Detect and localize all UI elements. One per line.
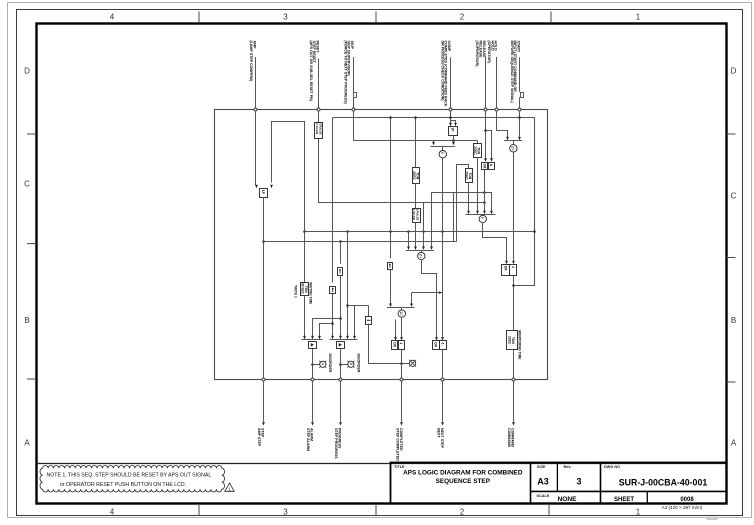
wire G4 output to P3 bbox=[422, 260, 437, 338]
svg-text:SHEET: SHEET bbox=[614, 497, 634, 503]
svg-text:SEQUENCE STEP: SEQUENCE STEP bbox=[436, 478, 491, 485]
svg-text:(SUPERVISOR): (SUPERVISOR) bbox=[475, 41, 479, 68]
svg-text:NOTE 1. THIS SEQ. STEP SHOULD: NOTE 1. THIS SEQ. STEP SHOULD BE RESET B… bbox=[47, 472, 212, 478]
svg-text:DISORDER: DISORDER bbox=[328, 354, 332, 373]
lamp X buzzer bbox=[409, 360, 416, 367]
svg-text:2SEC: 2SEC bbox=[508, 336, 512, 345]
svg-text:3: 3 bbox=[283, 13, 288, 22]
output STEP PROGRESS bbox=[339, 378, 342, 381]
wire P4 output bbox=[513, 276, 515, 330]
output COMMAND bbox=[512, 378, 515, 381]
block 1PULSE 1SCAN B1 bbox=[315, 123, 323, 139]
and box S2 bbox=[330, 339, 358, 341]
svg-text:(FORCE TO NEXT STEP PROGRESS): (FORCE TO NEXT STEP PROGRESS) bbox=[343, 41, 347, 105]
svg-text:2: 2 bbox=[460, 507, 465, 516]
svg-text:≧1: ≧1 bbox=[511, 146, 515, 151]
svg-text:NONE: NONE bbox=[558, 496, 578, 503]
svg-text:B: B bbox=[24, 316, 29, 325]
svg-text:3: 3 bbox=[576, 477, 581, 487]
wire H5 to H6 link bbox=[408, 231, 410, 242]
wire S1 link1 bbox=[313, 319, 341, 337]
svg-text:2: 2 bbox=[399, 343, 403, 345]
svg-text:A3 (420 × 297 m/m): A3 (420 × 297 m/m) bbox=[662, 505, 703, 510]
svg-text:1 SCAN: 1 SCAN bbox=[315, 123, 319, 134]
wire S2 fourth input via E3 branch bbox=[348, 305, 369, 307]
timer T4 WAITING TIME bbox=[304, 231, 306, 282]
timer T5 MONITORING TIME bbox=[507, 331, 518, 350]
svg-text:D: D bbox=[731, 67, 737, 76]
title block frame bbox=[391, 463, 727, 504]
wire T4 output bbox=[304, 296, 306, 337]
svg-text:or OPERATOR RESET PUSH BUTTON: or OPERATOR RESET PUSH BUTTON ON THE LCD… bbox=[60, 482, 186, 488]
wire P2 left input stub bbox=[395, 320, 397, 338]
svg-text:1: 1 bbox=[636, 507, 641, 516]
svg-text:1P: 1P bbox=[261, 190, 265, 195]
svg-text:AMP STEP: AMP STEP bbox=[257, 428, 261, 447]
svg-text:Rev.: Rev. bbox=[564, 465, 572, 469]
svg-text:2: 2 bbox=[460, 13, 465, 22]
wire P2 output to STEP COMPLETED bbox=[401, 350, 403, 380]
wire E3 output to buzzer line bbox=[369, 324, 410, 364]
lamp A disorder bbox=[319, 361, 326, 368]
wire H4 from 1pulse block bbox=[319, 139, 485, 203]
svg-text:STEP ALARM: STEP ALARM bbox=[306, 428, 310, 451]
svg-text:SUR-J-00CBA-40-001: SUR-J-00CBA-40-001 bbox=[619, 478, 708, 488]
svg-text:A3: A3 bbox=[537, 477, 549, 487]
svg-text:DISORDER: DISORDER bbox=[357, 354, 361, 373]
bottom strip divider bbox=[37, 463, 727, 465]
svg-text:2SEC: 2SEC bbox=[412, 171, 416, 180]
svg-text:C: C bbox=[731, 192, 737, 201]
wire S1 output to ALARM STEP bbox=[312, 349, 314, 380]
edge box E4 column bbox=[390, 118, 392, 259]
wire S2 third input bbox=[347, 231, 349, 336]
or gate G5 bbox=[387, 307, 415, 309]
wire G5 output bbox=[401, 317, 403, 337]
svg-text:0008: 0008 bbox=[680, 497, 694, 503]
wire G2 output bbox=[513, 152, 515, 260]
svg-text:WAITING TIME: WAITING TIME bbox=[309, 282, 313, 304]
svg-text:NEXT: NEXT bbox=[437, 428, 441, 438]
svg-text:2SEC: 2SEC bbox=[473, 146, 477, 155]
svg-text:≧1: ≧1 bbox=[400, 311, 404, 316]
wire H3 corner to G4 bbox=[431, 192, 433, 242]
svg-text:1: 1 bbox=[636, 13, 641, 22]
svg-text:(LAMP STEP CONFIRM): (LAMP STEP CONFIRM) bbox=[249, 41, 253, 82]
svg-text:C: C bbox=[24, 180, 30, 189]
svg-text:COMMAND: COMMAND bbox=[507, 428, 511, 448]
svg-text:SCALE: SCALE bbox=[537, 494, 550, 498]
wire PC output bbox=[453, 135, 455, 142]
timer T2 TON 2SEC bbox=[457, 165, 469, 242]
and gate G3 bbox=[466, 214, 496, 216]
wire H3 to H6 link bbox=[453, 192, 455, 242]
output NEXT STEP bbox=[441, 378, 444, 381]
wire H3 drop to G3 bbox=[491, 192, 493, 211]
or pair P3 bbox=[433, 341, 440, 350]
svg-text:≧1: ≧1 bbox=[419, 254, 423, 259]
sequence step outer box bbox=[215, 110, 548, 380]
wire skip feed HA bbox=[353, 140, 477, 142]
svg-text:OR: OR bbox=[503, 266, 507, 271]
svg-text:3: 3 bbox=[283, 507, 288, 516]
svg-text:APS LOGIC DIAGRAM FOR COMBINED: APS LOGIC DIAGRAM FOR COMBINED bbox=[403, 470, 523, 477]
wire bus H6 bbox=[263, 241, 456, 243]
output AMP STEP bbox=[262, 378, 265, 381]
or gate G2 bbox=[504, 140, 522, 142]
output STEP COMPLETED bbox=[400, 378, 403, 381]
inner feedback loop wire bbox=[333, 118, 535, 286]
and gate G1 bbox=[431, 146, 456, 148]
edge box E2 column bbox=[332, 118, 334, 283]
svg-text:1P: 1P bbox=[451, 127, 455, 132]
wire P3 output to NEXT STEP bbox=[442, 350, 444, 380]
wire T1 output bbox=[477, 158, 479, 211]
or pair P2 bbox=[392, 341, 398, 350]
svg-text:D: D bbox=[24, 67, 30, 76]
wire G1 output bbox=[442, 158, 444, 337]
svg-text:1 SCAN: 1 SCAN bbox=[412, 209, 416, 220]
svg-text:DWG NO: DWG NO bbox=[604, 465, 620, 469]
wire bus H5 bbox=[305, 231, 535, 233]
svg-text:OR: OR bbox=[482, 164, 486, 169]
pulse box PA bbox=[260, 189, 268, 198]
svg-text:MONITORING TIME: MONITORING TIME bbox=[518, 330, 522, 359]
edge box E1 column bbox=[340, 242, 342, 264]
svg-text:SIZE: SIZE bbox=[537, 465, 546, 469]
edge box E3 bbox=[368, 306, 370, 317]
wire H4 corner to G4 bbox=[423, 203, 425, 242]
wire T5 output to COMMAND bbox=[513, 350, 515, 379]
svg-text:*NOTE 1: *NOTE 1 bbox=[293, 285, 297, 298]
svg-text:A: A bbox=[731, 439, 737, 448]
wire S1 link2 bbox=[320, 324, 333, 337]
svg-text:30 SEC: 30 SEC bbox=[300, 283, 304, 295]
wire H3 bbox=[431, 192, 492, 194]
svg-text:6: 6 bbox=[440, 343, 444, 345]
svg-text:STEP COMPLETED: STEP COMPLETED bbox=[396, 428, 400, 461]
wire G5 tap from G1 line bbox=[412, 292, 439, 294]
block 1PULSE 1SCAN B2 bbox=[415, 184, 417, 208]
svg-text:2SEC: 2SEC bbox=[465, 172, 469, 181]
wire lamp B link bbox=[340, 364, 348, 366]
svg-text:A: A bbox=[24, 439, 30, 448]
svg-text:OR: OR bbox=[393, 342, 397, 347]
svg-text:(APS OUT OR SUB-SEL RESET PB): (APS OUT OR SUB-SEL RESET PB) bbox=[309, 41, 313, 102]
title block dividers bbox=[531, 463, 727, 504]
svg-text:OR: OR bbox=[434, 342, 438, 347]
wire PA output to AMP STEP bbox=[263, 197, 265, 379]
svg-text:OR PROCESS CHECK CONDITION): OR PROCESS CHECK CONDITION) bbox=[440, 41, 444, 102]
svg-text:2: 2 bbox=[511, 266, 515, 268]
lamp B disorder bbox=[347, 361, 354, 368]
wire T2 output bbox=[468, 183, 470, 211]
revision triangle bbox=[225, 483, 234, 491]
svg-text:(OPERATOR): (OPERATOR) bbox=[487, 41, 491, 64]
timer column T3 bbox=[415, 118, 417, 168]
wire P1 output bbox=[484, 170, 486, 211]
timer T1 TON 2SEC bbox=[477, 141, 479, 144]
svg-text:BEFORE SEQUENCE STEP SIGNAL): BEFORE SEQUENCE STEP SIGNAL) bbox=[510, 41, 514, 104]
and box S1 bbox=[302, 339, 323, 341]
wire S2 output to STEP PROGRESS bbox=[340, 349, 342, 380]
svg-text:TITLE: TITLE bbox=[394, 465, 405, 469]
or pair P4 bbox=[502, 265, 510, 276]
svg-text:4: 4 bbox=[110, 507, 115, 516]
wire PA loop top bbox=[272, 122, 305, 232]
wire lamp A link bbox=[312, 364, 319, 366]
svg-text:4: 4 bbox=[110, 13, 115, 22]
wire G3 output to P4 bbox=[483, 223, 507, 261]
or/and pair P1 bbox=[482, 163, 488, 170]
svg-text:STEP PROGRESS: STEP PROGRESS bbox=[334, 428, 338, 459]
note cloud bbox=[40, 466, 225, 493]
pulse box PC bbox=[451, 121, 456, 123]
or gate G4 bbox=[408, 242, 410, 247]
svg-text:B: B bbox=[731, 316, 736, 325]
output ALARM STEP bbox=[311, 378, 314, 381]
